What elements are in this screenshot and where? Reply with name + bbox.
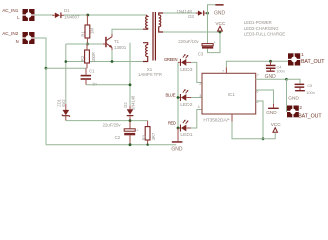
LED rail wire bbox=[177, 62, 179, 128]
svg-text:6V2: 6V2 bbox=[61, 99, 66, 107]
diode D2 bbox=[127, 106, 134, 121]
node A junction bbox=[86, 14, 89, 17]
svg-text:C3: C3 bbox=[198, 52, 204, 57]
wire C3 bottom to VCC bbox=[208, 32, 221, 53]
svg-text:+: + bbox=[136, 128, 138, 132]
svg-text:C5: C5 bbox=[307, 83, 312, 88]
svg-text:D1: D1 bbox=[64, 8, 70, 13]
junction D2 bottom bbox=[129, 119, 132, 122]
wire LED2 to pin3 bbox=[191, 97, 202, 99]
svg-text:RED: RED bbox=[168, 120, 176, 125]
pin 6 wire to ground bbox=[256, 90, 274, 104]
wire AC_IN2 to R2 C1 bbox=[46, 67, 86, 69]
svg-text:LED2-CHARGING: LED2-CHARGING bbox=[244, 26, 279, 31]
transformer secondary winding W2 bbox=[159, 13, 163, 32]
junction AC_IN2 bbox=[45, 67, 48, 70]
junction pin5 vcc bbox=[262, 137, 265, 140]
wire base corner down to zener bbox=[65, 44, 67, 104]
junction C4 bbox=[269, 60, 272, 63]
pad BAT_OUT 2 bbox=[287, 106, 299, 118]
svg-text:C1: C1 bbox=[89, 68, 95, 73]
svg-text:100n: 100n bbox=[276, 69, 285, 74]
bottom rail wire bbox=[46, 144, 176, 146]
svg-text:BLUE: BLUE bbox=[166, 93, 176, 98]
svg-text:+: + bbox=[214, 40, 216, 44]
junction D3 cathode bbox=[206, 12, 209, 15]
resistor R3 bbox=[145, 121, 150, 145]
svg-text:BAT_OUT: BAT_OUT bbox=[301, 59, 325, 65]
emitter junction bbox=[111, 60, 114, 63]
svg-text:4: 4 bbox=[198, 105, 200, 109]
transformer feedback winding W3 bbox=[143, 43, 148, 62]
text LED legend bbox=[244, 20, 285, 36]
wire secondary top to D3 bbox=[163, 12, 197, 14]
svg-text:BAT_OUT: BAT_OUT bbox=[298, 113, 322, 119]
svg-text:GREEN: GREEN bbox=[164, 57, 177, 62]
svg-text:T1: T1 bbox=[114, 39, 120, 44]
svg-text:2: 2 bbox=[199, 82, 201, 86]
svg-text:22uF/25v: 22uF/25v bbox=[103, 123, 122, 128]
wire emitter down bbox=[111, 50, 113, 62]
svg-text:N: N bbox=[16, 39, 19, 44]
svg-text:VCC: VCC bbox=[271, 122, 282, 127]
svg-text:100n: 100n bbox=[306, 90, 315, 95]
svg-text:4R7: 4R7 bbox=[151, 132, 156, 140]
zener ZD1 bbox=[62, 104, 70, 121]
wire LED3 to pin2 bbox=[191, 62, 202, 82]
wire AC_IN2 right bbox=[35, 38, 47, 68]
junction R3 bottom bbox=[146, 144, 148, 146]
junction C1 W3 D2 bbox=[129, 83, 132, 86]
ground top bbox=[214, 4, 226, 16]
wire pin7 to BAT_OUT 1 bbox=[226, 61, 291, 67]
svg-text:7: 7 bbox=[222, 70, 224, 74]
wire base net bbox=[66, 43, 103, 45]
svg-text:13001: 13001 bbox=[114, 45, 127, 50]
capacitor C4 bbox=[266, 61, 276, 70]
pin 8 wire bbox=[256, 78, 287, 80]
svg-text:AC_IN2: AC_IN2 bbox=[2, 31, 19, 36]
R2 leads bbox=[86, 44, 88, 68]
LED1 bbox=[178, 120, 191, 132]
diode D3 bbox=[196, 11, 207, 16]
junction C2 bottom bbox=[129, 143, 132, 146]
svg-text:D2: D2 bbox=[123, 102, 128, 108]
wire R1 to node B bbox=[86, 38, 88, 44]
svg-text:IC1: IC1 bbox=[228, 92, 236, 97]
junction LED1 rail bbox=[177, 127, 180, 130]
wire W3 top down bbox=[129, 43, 131, 106]
svg-text:7: 7 bbox=[257, 73, 259, 77]
capacitor C5 bbox=[295, 84, 305, 90]
svg-text:LED2: LED2 bbox=[180, 102, 193, 108]
svg-text:AC_IN1: AC_IN1 bbox=[2, 8, 19, 13]
bottom pin stub bbox=[231, 114, 233, 122]
resistor R2 bbox=[85, 50, 90, 63]
svg-text:GND: GND bbox=[171, 147, 183, 153]
svg-text:X1: X1 bbox=[147, 67, 153, 72]
wire AC_IN2 down to rail bbox=[45, 68, 47, 145]
svg-text:1AMPS TFR: 1AMPS TFR bbox=[138, 72, 162, 77]
svg-text:L: L bbox=[17, 15, 20, 20]
LED2 bbox=[178, 89, 191, 101]
wire C1 to D2 node bbox=[86, 84, 130, 86]
wire secondary bottom bbox=[163, 31, 220, 33]
wire D1 to transformer bbox=[64, 14, 146, 16]
ground LED rail bbox=[171, 128, 183, 153]
svg-text:1N4148: 1N4148 bbox=[131, 95, 136, 110]
wire D3 node down to C3 bbox=[207, 13, 209, 43]
wire zener rail bbox=[66, 120, 148, 122]
capacitor C1 bbox=[81, 68, 91, 85]
resistor R1 bbox=[85, 25, 90, 38]
svg-text:1M: 1M bbox=[89, 28, 94, 34]
wire to C5 bbox=[287, 79, 301, 83]
svg-text:GND: GND bbox=[266, 110, 277, 115]
wire pin8 down to BAT_OUT 2 bbox=[287, 79, 291, 111]
wire collector to primary winding bbox=[112, 29, 143, 34]
svg-text:VCC: VCC bbox=[215, 21, 226, 26]
svg-text:3: 3 bbox=[199, 94, 201, 98]
pad AC_IN1 bbox=[23, 9, 35, 21]
wire node A down to R1 bbox=[86, 15, 88, 25]
svg-text:1n: 1n bbox=[92, 81, 97, 86]
pin 5 wire bbox=[256, 101, 263, 139]
wire bottom pin to VCC bbox=[232, 122, 275, 139]
pad AC_IN2 bbox=[23, 32, 35, 44]
transformer core bbox=[153, 12, 155, 61]
wire AC_IN1 to D1 bbox=[35, 14, 55, 16]
junction pin8 bbox=[285, 78, 288, 81]
svg-text:LED3: LED3 bbox=[180, 67, 193, 73]
transistor T1 bbox=[103, 34, 112, 51]
svg-text:1: 1 bbox=[301, 52, 304, 57]
svg-text:2: 2 bbox=[299, 105, 302, 110]
svg-text:HT3582DA/*: HT3582DA/* bbox=[203, 118, 229, 124]
diode D1 bbox=[52, 13, 64, 19]
ground pin6 bbox=[266, 104, 279, 115]
svg-text:5: 5 bbox=[256, 100, 258, 104]
svg-text:LED1-POWER: LED1-POWER bbox=[244, 20, 272, 25]
svg-text:220uF/10v: 220uF/10v bbox=[178, 39, 199, 44]
svg-text:R3: R3 bbox=[142, 134, 147, 140]
svg-text:GND: GND bbox=[288, 95, 299, 100]
svg-text:GND: GND bbox=[214, 10, 226, 16]
wire LED1 to pin4 bbox=[191, 110, 202, 129]
supply VCC bottom bbox=[271, 122, 282, 133]
ground C4 bbox=[265, 71, 277, 81]
junction LED2 rail bbox=[177, 96, 180, 99]
pad BAT_OUT 1 bbox=[288, 53, 300, 65]
svg-text:C2: C2 bbox=[115, 135, 121, 140]
wire emitter net bbox=[66, 61, 143, 63]
svg-text:D3: D3 bbox=[188, 14, 194, 19]
transformer X1 primary winding W1 bbox=[143, 15, 148, 29]
wire D3 to GND symbol bbox=[208, 5, 220, 13]
svg-text:LED1: LED1 bbox=[180, 132, 193, 138]
node B junction bbox=[86, 43, 89, 46]
svg-text:R2: R2 bbox=[80, 55, 85, 61]
ground C5 bbox=[288, 90, 305, 100]
junction VCC bbox=[219, 31, 222, 34]
svg-text:R1: R1 bbox=[81, 30, 86, 36]
pin 7 stub bbox=[225, 68, 227, 74]
svg-text:100R: 100R bbox=[91, 52, 96, 62]
capacitor C3 bbox=[202, 40, 216, 48]
junction zener top bbox=[65, 60, 68, 63]
capacitor C2 bbox=[124, 121, 138, 145]
LED3 bbox=[178, 54, 191, 66]
svg-text:LED3-FULL CHARGE: LED3-FULL CHARGE bbox=[244, 32, 285, 37]
IC U1 box bbox=[202, 73, 256, 114]
supply VCC top bbox=[215, 21, 226, 31]
